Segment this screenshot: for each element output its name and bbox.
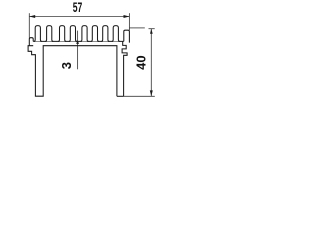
svg-text:3: 3 — [59, 62, 74, 69]
svg-text:40: 40 — [134, 55, 149, 70]
svg-text:57: 57 — [73, 1, 83, 15]
